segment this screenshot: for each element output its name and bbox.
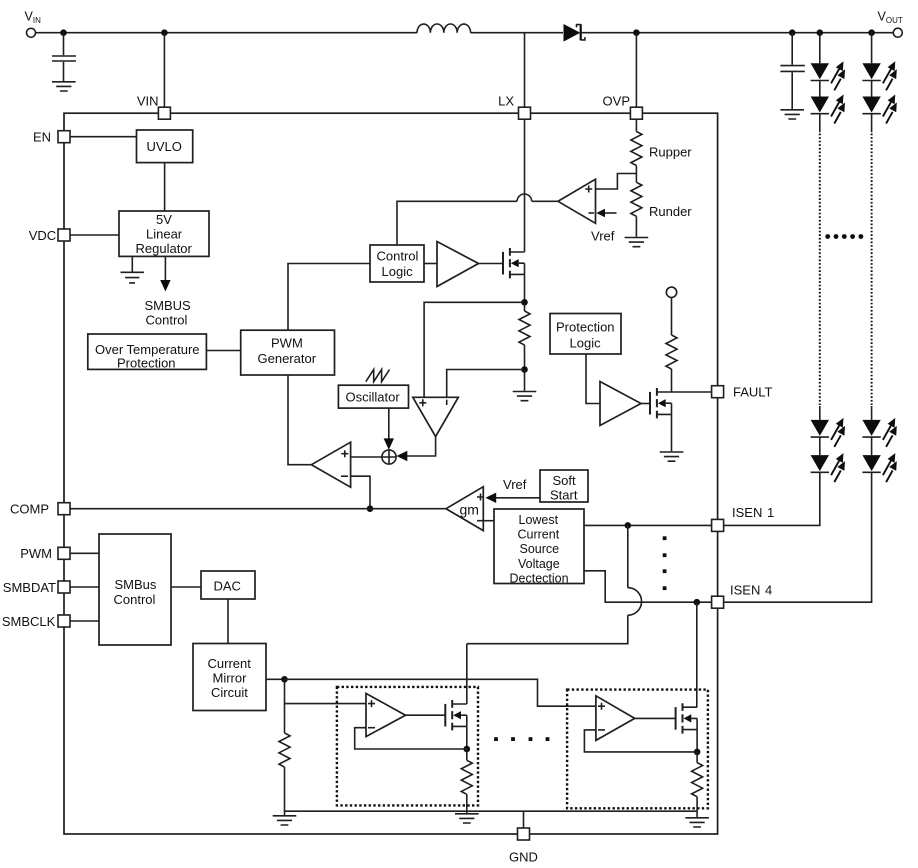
svg-text:VIN: VIN xyxy=(137,94,159,109)
hop over ISEN4 wire xyxy=(628,588,642,616)
svg-text:Source: Source xyxy=(520,542,560,556)
wire M4 source to sense node channel4 xyxy=(696,730,698,752)
pin OVP xyxy=(630,107,642,119)
pin SMBCLK xyxy=(58,615,70,627)
transistor M3 channel1 xyxy=(445,700,467,730)
pin SMBDAT xyxy=(58,581,70,593)
comparator U5 OVP xyxy=(558,179,596,223)
wire diode to VOUT xyxy=(580,32,894,34)
resistor channel1 sense xyxy=(461,749,472,813)
svg-text:LX: LX xyxy=(498,94,514,109)
terminal fault pullup xyxy=(666,287,676,297)
svg-text:Logic: Logic xyxy=(570,336,602,351)
wire top rail to LX pin xyxy=(524,33,526,108)
wire M3 source to sense node channel1 xyxy=(466,726,468,749)
node LED string1 top xyxy=(817,29,824,36)
transistor M4 channel4 xyxy=(676,703,698,733)
svg-text:GND: GND xyxy=(509,850,538,865)
wire DAC to Current Mirror Circuit xyxy=(227,599,229,644)
wire M1 source to sense node xyxy=(524,274,526,302)
wire sense bottom to comparator minus xyxy=(447,370,525,398)
wire internal ground rail xyxy=(285,810,698,812)
IC boundary box xyxy=(64,113,718,834)
wire PWM generator to error amp output xyxy=(288,375,311,465)
node sense top xyxy=(521,299,528,306)
wire rail to GND pin xyxy=(523,811,525,828)
label LX pin xyxy=(498,94,514,109)
node ISEN1 branch xyxy=(625,522,632,529)
block PWM Generator xyxy=(241,330,335,375)
wire ISEN1 node down to channel1 drain with hop xyxy=(467,525,628,643)
ground sense resistor xyxy=(513,392,537,401)
wire LED string1 segments xyxy=(724,33,820,526)
svg-text:Protection: Protection xyxy=(117,356,176,371)
wire OTP to PWM generator xyxy=(206,350,240,352)
block SMBus Control xyxy=(99,534,171,645)
wire LED string2 segments xyxy=(724,33,872,603)
ellipsis dots between channels xyxy=(494,737,549,741)
svg-text:Linear: Linear xyxy=(146,227,183,242)
wire gm minus to detection block xyxy=(483,520,494,522)
wire mirror node down to mirror resistor xyxy=(284,679,286,733)
svg-text:FAULT: FAULT xyxy=(733,385,773,400)
svg-text:EN: EN xyxy=(33,130,51,145)
svg-text:Start: Start xyxy=(550,488,578,503)
wire ISEN4 node down to channel4 drain xyxy=(696,602,698,707)
svg-text:Protection: Protection xyxy=(556,320,615,335)
ellipsis dots ISEN channels xyxy=(663,536,667,590)
LED D6 string2 xyxy=(862,61,896,90)
label PWM pin xyxy=(20,546,52,561)
error amp U4 xyxy=(311,442,350,487)
LED D3 string1 xyxy=(811,95,845,124)
svg-text:5V: 5V xyxy=(156,212,172,227)
ground current mirror resistor xyxy=(273,816,297,825)
svg-text:Rupper: Rupper xyxy=(649,145,692,160)
node current mirror xyxy=(281,676,288,683)
comparator U3 current sense xyxy=(413,397,459,436)
label SMBDAT pin xyxy=(3,580,56,595)
block Oscillator xyxy=(338,385,408,408)
diode D1 schottky xyxy=(564,24,585,42)
wire error amp minus to COMP line xyxy=(351,476,370,509)
wire detection block to ISEN1 pin xyxy=(584,524,712,526)
wire opamp4 output to M4 gate xyxy=(635,717,676,719)
wire Protection Logic to fault buffer xyxy=(586,354,600,404)
wire Control Logic top to OVP comparator output with hop xyxy=(397,201,558,245)
LED D2 string1 xyxy=(811,61,845,90)
svg-text:Generator: Generator xyxy=(258,351,317,366)
wire buffer to M2 gate xyxy=(641,403,650,405)
arrowhead into summing node xyxy=(397,451,408,461)
label SMBCLK pin xyxy=(2,614,56,629)
wire SMBus Control to DAC xyxy=(171,586,201,588)
pin LX xyxy=(519,107,531,119)
svg-text:Circuit: Circuit xyxy=(211,685,248,700)
node ISEN4 branch xyxy=(694,599,701,606)
svg-text:Logic: Logic xyxy=(382,264,414,279)
pin ISEN1 xyxy=(712,519,724,531)
wire error amp plus to summing node xyxy=(351,456,382,458)
sawtooth symbol xyxy=(366,370,390,382)
block Protection Logic xyxy=(550,314,621,355)
block Control Logic xyxy=(370,245,424,282)
node sense bottom xyxy=(521,366,528,373)
pin EN xyxy=(58,131,70,143)
svg-text:Control: Control xyxy=(114,592,156,607)
wire mirror tap to channel1 opamp plus xyxy=(285,703,367,705)
label VOUT terminal xyxy=(878,10,903,25)
node channel1 source xyxy=(464,746,471,753)
svg-text:Runder: Runder xyxy=(649,204,692,219)
wire channel1 feedback to opamp minus xyxy=(355,728,467,749)
svg-text:Current: Current xyxy=(208,656,252,671)
ground M2 xyxy=(660,452,684,461)
ground channel1 xyxy=(455,814,479,823)
terminal VOUT xyxy=(893,28,902,37)
label VIN pin xyxy=(137,94,159,109)
svg-text:Dectection: Dectection xyxy=(510,571,569,585)
label ISEN1 pin xyxy=(732,505,774,520)
wire Control Logic to gate buffer xyxy=(424,263,437,265)
label VDC pin xyxy=(29,228,56,243)
svg-text:Vref: Vref xyxy=(503,477,527,492)
wire LED string2 dotted section xyxy=(871,134,873,406)
hop over LX line xyxy=(517,194,532,201)
svg-text:Lowest: Lowest xyxy=(519,513,559,527)
LED D5 string1 xyxy=(811,453,845,482)
wire sense node to comparator plus xyxy=(424,302,524,397)
label OVP pin xyxy=(603,94,630,109)
svg-text:Current: Current xyxy=(518,528,560,542)
node COMP feedback xyxy=(367,505,374,512)
pin ISEN4 xyxy=(712,596,724,608)
label Rupper xyxy=(649,145,692,160)
svg-text:Mirror: Mirror xyxy=(213,671,248,686)
capacitor COUT xyxy=(780,33,804,109)
wire EN pin to UVLO xyxy=(70,136,137,138)
label Vref gm xyxy=(503,477,527,492)
wire mirror node to channel4 opamp plus xyxy=(285,679,596,706)
op-amp U8 channel4 xyxy=(596,696,635,741)
wire comparator output to summing node xyxy=(407,437,436,456)
wire SMBDAT pin to SMBus Control xyxy=(70,586,99,588)
inductor L1 xyxy=(417,24,471,33)
wire M3 drain up to ISEN1 path xyxy=(466,644,468,704)
label GND pin xyxy=(509,850,538,865)
node output cap junction xyxy=(789,29,796,36)
svg-text:Soft: Soft xyxy=(553,473,577,488)
resistor current mirror xyxy=(279,733,290,815)
block Lowest Current Source Voltage Dectection xyxy=(494,509,584,585)
svg-text:SMBDAT: SMBDAT xyxy=(3,580,56,595)
wire VIN node down to VIN pin xyxy=(163,33,165,108)
wire oscillator to summing node with arrowhead xyxy=(384,408,394,450)
wire current mirror output node xyxy=(266,678,285,680)
node channel4 source xyxy=(694,749,701,756)
label SMBUS Control xyxy=(145,298,192,328)
svg-text:VDC: VDC xyxy=(29,228,56,243)
svg-text:Control: Control xyxy=(146,313,188,328)
terminal VIN xyxy=(27,28,36,37)
op-amp gm error amplifier xyxy=(446,487,484,531)
label FAULT pin xyxy=(733,385,773,400)
wire SMBCLK pin to SMBus Control xyxy=(70,620,99,622)
svg-text:COMP: COMP xyxy=(10,502,49,517)
wire OVP node down to OVP pin xyxy=(635,33,637,108)
Vref arrow into OVP comparator minus xyxy=(596,209,616,217)
wire LX pin to M1 drain xyxy=(524,119,526,252)
svg-text:PWM: PWM xyxy=(20,546,52,561)
node OVP junction xyxy=(633,29,640,36)
wire detection block to ISEN4 pin xyxy=(584,571,712,602)
pin GND xyxy=(518,828,530,840)
arrow regulator to SMBUS control xyxy=(160,256,170,291)
wire channel4 feedback to opamp minus xyxy=(584,730,697,752)
svg-text:Vref: Vref xyxy=(591,229,615,244)
ground regulator xyxy=(121,256,145,283)
label Runder xyxy=(649,204,692,219)
ground input cap xyxy=(52,82,76,91)
summing junction xyxy=(382,450,396,464)
label Vref OVP xyxy=(591,229,615,244)
block 5V Linear Regulator xyxy=(119,211,209,256)
wire opamp1 output to M3 gate xyxy=(406,714,446,716)
ground Runder xyxy=(625,238,649,247)
svg-text:gm: gm xyxy=(460,502,479,518)
svg-text:UVLO: UVLO xyxy=(147,139,182,154)
label COMP pin xyxy=(10,502,49,517)
node VIN-pin junction xyxy=(161,29,168,36)
pin COMP xyxy=(58,503,70,515)
svg-text:ISEN 1: ISEN 1 xyxy=(732,505,774,520)
buffer U2 gate driver xyxy=(437,242,479,287)
pin VDC xyxy=(58,229,70,241)
label ISEN4 pin xyxy=(730,583,772,598)
svg-text:OVP: OVP xyxy=(603,94,630,109)
buffer U6 fault driver xyxy=(600,382,641,426)
wire inductor to diode xyxy=(471,32,563,34)
wire divider tap to OVP comparator plus xyxy=(596,174,637,190)
wire M2 drain to FAULT pin xyxy=(672,391,712,393)
wire UVLO to regulator xyxy=(164,163,166,211)
svg-text:ISEN 4: ISEN 4 xyxy=(730,583,772,598)
ground channel4 xyxy=(685,818,709,827)
block Over Temperature Protection xyxy=(88,334,207,371)
svg-text:Voltage: Voltage xyxy=(518,557,560,571)
wire LED string1 dotted section xyxy=(819,134,821,406)
block UVLO xyxy=(137,130,193,163)
wire top rail from VIN to inductor xyxy=(36,32,417,34)
svg-text:PWM: PWM xyxy=(271,336,303,351)
LED D8 string2 xyxy=(862,418,896,447)
transistor M1 power MOSFET xyxy=(503,248,525,278)
op-amp U7 channel1 xyxy=(366,693,406,736)
wire sense bottom to ground xyxy=(524,370,526,391)
transistor M2 fault MOSFET xyxy=(650,388,672,418)
channel4 dashed box xyxy=(567,690,708,809)
svg-text:Regulator: Regulator xyxy=(136,241,193,256)
wire COMP pin to gm output xyxy=(70,508,446,510)
block Current Mirror Circuit xyxy=(193,644,266,711)
resistor Runder xyxy=(631,174,642,237)
ellipsis dots between LED strings xyxy=(825,234,863,239)
wire M2 source to ground xyxy=(671,414,673,451)
pin FAULT xyxy=(712,386,724,398)
capacitor CIN xyxy=(52,33,76,81)
svg-text:SMBCLK: SMBCLK xyxy=(2,614,56,629)
node input cap junction xyxy=(60,29,67,36)
ground output cap xyxy=(780,110,804,119)
Vref arrow into gm plus xyxy=(485,493,540,503)
svg-text:Oscillator: Oscillator xyxy=(346,390,401,405)
label VIN terminal xyxy=(25,10,42,25)
LED D9 string2 xyxy=(862,453,896,482)
wire buffer to M1 gate xyxy=(479,263,504,265)
wire PWM generator to Control Logic xyxy=(288,264,370,331)
block DAC xyxy=(201,571,255,599)
label EN pin xyxy=(33,130,51,145)
resistor Rsense xyxy=(519,302,530,369)
svg-text:DAC: DAC xyxy=(214,579,241,594)
svg-text:Control: Control xyxy=(377,249,419,264)
svg-text:SMBUS: SMBUS xyxy=(145,298,192,313)
pin PWM xyxy=(58,547,70,559)
channel1 dashed box xyxy=(337,687,478,806)
resistor channel4 sense xyxy=(692,752,703,817)
LED D7 string2 xyxy=(862,95,896,124)
block Soft Start xyxy=(540,470,588,503)
wire PWM pin to SMBus Control xyxy=(70,552,99,554)
wire VDC pin to regulator xyxy=(70,234,119,236)
resistor Rupper xyxy=(631,119,642,173)
node LED string2 top xyxy=(868,29,875,36)
LED D4 string1 xyxy=(811,418,845,447)
pin VIN xyxy=(158,107,170,119)
svg-text:SMBus: SMBus xyxy=(115,577,157,592)
resistor fault pullup xyxy=(666,298,677,393)
